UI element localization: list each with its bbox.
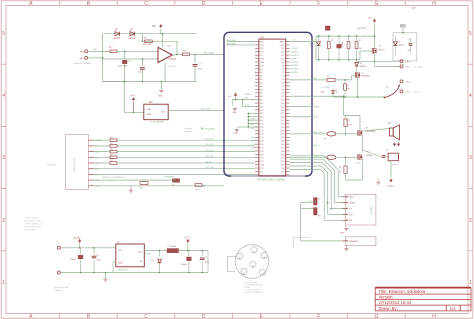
svg-text:R?: R? [359,40,361,42]
svg-text:GND: GND [118,263,123,265]
svg-text:LA SALIDA DEL: LA SALIDA DEL [24,217,40,220]
svg-text:D14: D14 [260,147,263,149]
svg-text:27/12/2013 16:44: 27/12/2013 16:44 [379,300,412,305]
svg-text:+5V: +5V [152,25,157,28]
svg-text:ARDUINO_MEGA_SHIELD: ARDUINO_MEGA_SHIELD [257,179,286,182]
svg-text:LCD_D5: LCD_D5 [205,150,214,152]
svg-text:1N4148: 1N4148 [128,38,136,40]
svg-text:GND: GND [158,96,163,98]
svg-text:A11: A11 [260,105,263,108]
svg-text:Sensor: Sensor [414,90,421,93]
svg-text:PB7: PB7 [260,45,263,47]
svg-text:1N4148: 1N4148 [113,38,121,40]
svg-text:R?: R? [347,85,349,87]
svg-text:T?: T? [379,46,381,48]
svg-text:A13: A13 [260,112,263,115]
svg-text:PB5: PB5 [260,41,263,43]
svg-text:D20: D20 [260,127,263,129]
svg-text:10n: 10n [408,50,411,52]
svg-text:D33: D33 [281,134,284,136]
svg-text:A0: A0 [260,68,262,71]
svg-text:D34: D34 [281,137,284,139]
svg-text:PB?: PB? [245,97,249,99]
svg-text:D46: D46 [251,147,254,149]
svg-text:ADC2(A2): ADC2(A2) [205,128,215,131]
svg-text:H: H [432,1,436,7]
svg-text:3A max: 3A max [55,289,62,292]
svg-text:D22: D22 [281,96,284,98]
svg-text:A14: A14 [260,116,263,119]
svg-text:F: F [317,314,320,319]
svg-text:Drawn By:: Drawn By: [379,306,398,311]
svg-text:4: 4 [2,93,5,99]
svg-text:GND: GND [260,59,265,61]
svg-text:MIC: MIC [80,52,84,54]
svg-text:Termopar: Termopar [184,127,193,130]
svg-text:LCD_D4: LCD_D4 [205,156,214,158]
svg-text:SP?: SP? [388,123,392,125]
svg-text:100n: 100n [97,260,101,262]
svg-text:D18: D18 [260,134,263,136]
svg-text:+VCC: +VCC [130,95,136,97]
svg-text:100uF: 100uF [70,259,76,261]
svg-text:GND: GND [340,233,345,235]
svg-text:BCP53: BCP53 [379,49,385,51]
svg-text:R?: R? [327,76,329,78]
svg-text:D4: D4 [282,79,284,81]
svg-text:A4: A4 [260,81,262,84]
svg-text:MEGA 2560: MEGA 2560 [24,229,36,232]
svg-text:D11/MOSI: D11/MOSI [290,55,299,57]
svg-text:D2: D2 [282,86,284,88]
svg-text:1N4007: 1N4007 [398,44,404,46]
svg-text:2: 2 [2,218,5,224]
svg-text:OPA340: OPA340 [168,58,177,61]
svg-text:D: D [202,1,206,7]
svg-text:D27: D27 [281,113,284,115]
svg-text:GND: GND [260,62,265,64]
svg-text:ADC0(A0): ADC0(A0) [204,51,214,54]
svg-text:encoder: encoder [370,206,373,215]
svg-text:D: D [202,314,206,319]
svg-text:ADC5(A5): ADC5(A5) [227,42,236,45]
svg-text:R?: R? [339,167,341,169]
svg-text:D16: D16 [260,141,263,143]
svg-text:LCD_D7: LCD_D7 [205,139,214,141]
svg-text:C: C [144,314,148,319]
svg-text:G: G [374,314,378,319]
svg-text:D39: D39 [281,154,284,156]
svg-text:F: F [317,1,320,7]
svg-text:D17: D17 [260,137,263,139]
svg-text:D35: D35 [281,141,284,143]
svg-text:D31: D31 [281,127,284,129]
svg-text:D19: D19 [260,130,263,132]
svg-text:4K7: 4K7 [347,89,350,91]
svg-text:GND: GND [349,197,354,199]
svg-text:+12-18V: +12-18V [73,237,82,239]
svg-text:GND: GND [147,114,152,116]
svg-text:G: G [374,1,378,7]
svg-text:GND: GND [280,45,285,47]
svg-text:SW: SW [349,220,352,222]
svg-text:CLK: CLK [349,214,354,216]
svg-text:D8/PWM: D8/PWM [290,65,298,67]
svg-text:D12/MISO: D12/MISO [290,52,299,54]
svg-text:1N4148: 1N4148 [360,66,366,68]
svg-text:3: 3 [2,155,5,161]
svg-text:SOLD: SOLD [314,156,320,158]
svg-text:A7: A7 [260,92,262,95]
svg-text:PATELLA OPERATIVA: PATELLA OPERATIVA [102,176,125,179]
svg-text:A15: A15 [260,119,263,122]
svg-text:D23: D23 [281,100,284,102]
svg-text:D38: D38 [281,151,284,153]
svg-text:PUSH: PUSH [349,203,355,205]
svg-text:BD940: BD940 [367,155,373,157]
svg-text:D49: D49 [251,137,254,139]
svg-text:soldador: soldador [184,130,192,133]
svg-text:+5V_AVR: +5V_AVR [321,86,330,89]
svg-text:D?: D? [398,42,400,44]
svg-text:5: 5 [469,31,472,37]
svg-text:D26: D26 [281,110,284,112]
svg-text:R?: R? [348,120,350,122]
svg-text:RESET: RESET [245,94,252,96]
svg-text:ADC4(A4): ADC4(A4) [227,39,236,42]
svg-text:22P CAP: 22P CAP [118,65,127,68]
svg-text:A10: A10 [260,102,263,105]
svg-text:D48: D48 [251,140,254,142]
svg-text:A12: A12 [260,109,263,112]
svg-text:D45: D45 [281,175,284,177]
svg-text:LM2576-5: LM2576-5 [118,270,129,272]
svg-text:LCD_E: LCD_E [205,161,212,163]
svg-text:Version:: Version: [379,295,394,300]
svg-text:D13: D13 [281,48,284,50]
svg-text:D?: D? [311,43,313,45]
svg-text:REGULADOR VA: REGULADOR VA [24,220,41,223]
svg-text:CA5 471: CA5 471 [168,65,177,68]
svg-text:+12-18V: +12-18V [386,186,394,188]
svg-text:D30: D30 [281,123,284,125]
svg-text:MOSI: MOSI [251,119,256,121]
svg-text:D32: D32 [281,130,284,132]
svg-text:IRF9530NS: IRF9530NS [366,131,377,133]
svg-text:3: 3 [469,155,472,161]
svg-text:D10/SS: D10/SS [290,58,297,60]
svg-text:A2: A2 [260,75,262,78]
svg-text:K?: K? [386,150,388,152]
svg-text:R?: R? [331,40,333,42]
svg-text:IRF9530NS: IRF9530NS [361,76,371,78]
svg-text:D0: D0 [282,93,284,95]
svg-text:MISO: MISO [251,124,256,126]
svg-text:4: 4 [469,93,472,99]
svg-text:D7: D7 [282,69,284,71]
svg-text:A3: A3 [260,78,262,81]
svg-text:D51: D51 [260,154,263,156]
svg-text:TC1047AVNB: TC1047AVNB [150,120,164,123]
svg-text:D9: D9 [282,62,284,64]
svg-text:para EL SOLDADOR: para EL SOLDADOR [244,291,263,294]
svg-text:D7/PWM: D7/PWM [290,69,298,71]
svg-text:C: C [144,1,148,7]
svg-text:De niquel: De niquel [414,66,423,68]
svg-text:LED?: LED? [321,92,326,94]
svg-text:A9: A9 [260,99,262,102]
svg-text:+5V: +5V [368,18,372,20]
svg-text:D37: D37 [281,147,284,149]
svg-text:1: 1 [2,280,5,286]
svg-text:bobina: bobina [392,164,399,166]
svg-text:ADC1(A1): ADC1(A1) [201,107,211,110]
svg-text:1/1: 1/1 [450,306,456,311]
svg-text:D43: D43 [281,168,284,170]
svg-text:+VCC: +VCC [184,237,190,239]
svg-text:D21: D21 [260,123,263,125]
svg-text:D36: D36 [281,144,284,146]
svg-text:Title: Estacion_soldadora: Title: Estacion_soldadora [379,289,427,294]
svg-text:BUZZ: BUZZ [314,117,320,119]
svg-text:R?: R? [318,216,320,218]
svg-text:D12: D12 [281,52,284,54]
svg-text:D1: D1 [282,89,284,91]
svg-text:ENC_A: ENC_A [314,144,321,147]
svg-text:2: 2 [469,218,472,224]
svg-text:R?: R? [318,199,320,201]
svg-text:T?: T? [361,73,363,75]
svg-text:VCC: VCC [246,105,251,107]
svg-text:PLACA ARDUINO: PLACA ARDUINO [24,226,41,229]
svg-text:VIN: VIN [118,250,122,252]
svg-text:R?: R? [324,139,326,141]
svg-text:D25: D25 [281,106,284,108]
svg-text:D44: D44 [281,171,284,173]
svg-text:GND: GND [260,165,265,167]
svg-text:A1: A1 [260,71,262,74]
svg-text:DISPLAY LCD: DISPLAY LCD [73,158,76,172]
svg-text:D52: D52 [260,158,263,160]
svg-text:GND: GND [232,112,237,114]
svg-text:D6: D6 [282,72,284,74]
svg-text:CONECTADA A LA: CONECTADA A LA [24,223,42,226]
svg-text:PWM2: PWM2 [314,106,320,108]
svg-text:4k7: 4k7 [359,48,362,50]
svg-text:D11: D11 [281,55,284,57]
svg-text:D6/PWM: D6/PWM [290,72,298,74]
svg-text:D42: D42 [281,165,284,167]
svg-text:D5: D5 [282,76,284,78]
svg-text:COMPARE: COMPARE [163,175,174,178]
svg-text:PWM_SPK: PWM_SPK [314,132,324,134]
svg-text:D47: D47 [251,144,254,146]
svg-text:OUT: OUT [161,112,166,114]
svg-text:D50: D50 [260,151,263,153]
svg-text:LCD_D6: LCD_D6 [205,144,214,146]
svg-text:D53: D53 [260,161,263,163]
svg-text:LCD_RS: LCD_RS [205,167,214,169]
svg-text:+24V: +24V [411,8,416,10]
svg-text:OUT: OUT [138,252,143,254]
svg-text:L? 100uH: L? 100uH [168,246,177,248]
svg-text:MIC: MIC [80,58,84,60]
svg-text:D13/SCK: D13/SCK [290,48,298,50]
svg-text:GND: GND [234,133,239,135]
svg-text:D29: D29 [281,120,284,122]
svg-text:C?: C? [408,39,410,41]
svg-text:D24: D24 [281,103,284,105]
svg-text:H: H [432,314,436,319]
svg-text:D9/PWM: D9/PWM [290,62,298,64]
svg-text:5: 5 [2,31,5,37]
svg-text:D40: D40 [281,158,284,160]
svg-text:D41: D41 [281,161,284,163]
svg-text:A6: A6 [260,88,262,91]
svg-text:100uF: 100uF [181,264,187,266]
svg-text:MIC: MIC [93,49,97,51]
svg-text:D10: D10 [281,59,284,61]
svg-text:LCD16X2: LCD16X2 [47,165,57,167]
svg-text:1: 1 [469,280,472,286]
svg-text:A5: A5 [260,85,262,88]
svg-text:IC?: IC? [260,36,264,39]
svg-text:A8: A8 [260,95,262,98]
svg-text:D28: D28 [281,117,284,119]
svg-text:+BATERIA: +BATERIA [356,27,367,30]
svg-text:D15: D15 [260,144,263,146]
svg-text:SPEAKER: SPEAKER [349,240,359,243]
svg-text:D8: D8 [282,65,284,67]
svg-text:VDD: VDD [147,109,152,111]
svg-text:T?: T? [366,128,368,130]
svg-text:4M7 2M: 4M7 2M [143,44,151,46]
svg-text:Termopar Soldador: Termopar Soldador [73,62,92,65]
svg-text:3V3: 3V3 [260,52,263,54]
svg-text:bateria 12-18V: bateria 12-18V [55,286,69,289]
svg-text:D3: D3 [282,82,284,84]
svg-text:bc547: bc547 [356,163,361,165]
svg-text:100uF: 100uF [342,40,344,46]
